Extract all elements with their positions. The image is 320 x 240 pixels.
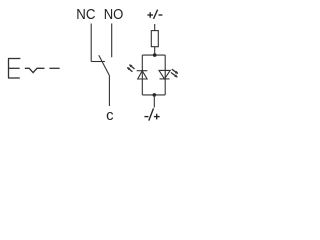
svg-text:c: c [106, 108, 113, 124]
svg-text:NC: NC [76, 7, 95, 23]
LED loop frame [142, 55, 165, 95]
LED D1 (left, cathode up) [137, 71, 148, 79]
LED D2 (right, cathode down) [159, 70, 170, 79]
resistor lead bottom [154, 47, 156, 55]
resistor R [151, 31, 158, 47]
NO contact wire [111, 24, 113, 58]
switch lever [99, 55, 110, 75]
LED D1 emission arrows [127, 64, 135, 72]
label +/- [147, 10, 162, 19]
bottom lead [153, 95, 155, 108]
LED D2 emission arrows [171, 69, 178, 77]
junction dot top [153, 53, 157, 57]
NC contact wire [91, 24, 105, 62]
label -/+ [144, 108, 159, 120]
junction dot bottom [153, 93, 157, 97]
svg-text:NO: NO [104, 7, 124, 23]
thermal element E symbol [8, 59, 20, 79]
mechanical link dash [49, 67, 59, 69]
common wire C [108, 76, 110, 107]
resistor lead top [154, 24, 156, 31]
thermal actuator chevron [25, 68, 45, 72]
